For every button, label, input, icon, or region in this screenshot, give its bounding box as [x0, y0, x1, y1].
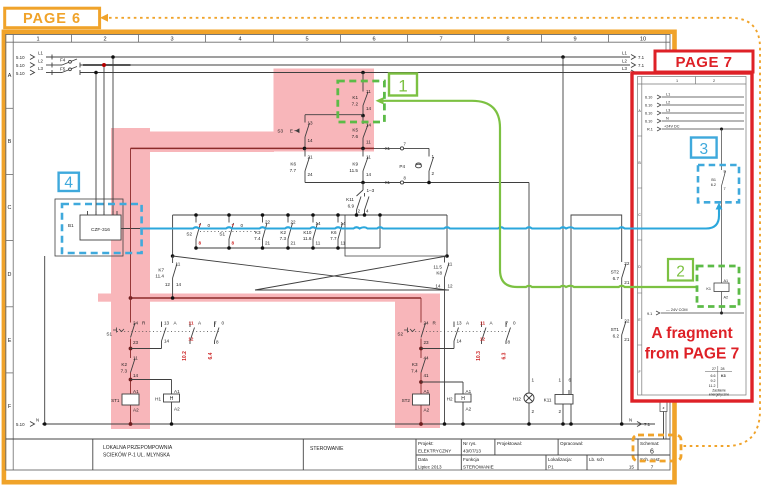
svg-text:22: 22	[624, 319, 630, 324]
mini cross reference table K3	[709, 367, 726, 388]
B1 enclosure outline	[55, 199, 123, 256]
frame inner top line (column number strip)	[6, 41, 670, 43]
S2 aux contact 13 14	[454, 322, 459, 349]
svg-text:Projekt:: Projekt:	[418, 441, 434, 446]
title block: Sch nast 7	[640, 457, 660, 470]
label 5.10 N left	[16, 418, 39, 428]
svg-text:1: 1	[559, 378, 562, 383]
svg-text:K2: K2	[280, 230, 286, 235]
svg-text:ST2: ST2	[402, 398, 411, 403]
contact K10	[313, 215, 318, 248]
cyan number label 4	[59, 173, 79, 192]
mini page frame	[638, 77, 747, 396]
svg-text:8: 8	[508, 340, 511, 345]
svg-text:10.2: 10.2	[182, 351, 188, 361]
label S2 pins 24 R 23	[397, 321, 436, 346]
source arrow L2	[30, 63, 35, 68]
svg-text:H1: H1	[155, 397, 161, 402]
svg-text:6.10: 6.10	[645, 104, 652, 108]
mini labels 6.10 L1 L2 L3 N R.1 +24V	[645, 93, 680, 132]
label S2 aux 13 A 14	[457, 321, 471, 344]
svg-text:6: 6	[569, 378, 572, 383]
svg-text:22: 22	[624, 261, 630, 266]
highlight band: left vertical over ST1 rung	[111, 128, 150, 429]
label z terminal	[663, 405, 665, 410]
green highlight wire K1 link	[383, 101, 697, 287]
svg-text:L1: L1	[38, 51, 43, 56]
svg-text:6.2: 6.2	[613, 334, 620, 339]
svg-text:A1: A1	[133, 389, 139, 394]
green dashed box 2 around coil K1	[697, 266, 739, 307]
svg-text:K6: K6	[290, 162, 296, 167]
junction S2 bottom x421 y348.5	[419, 347, 423, 351]
svg-text:7.3: 7.3	[280, 236, 287, 241]
svg-text:B: B	[8, 139, 12, 145]
svg-text:6.2: 6.2	[711, 183, 716, 187]
svg-text:A1: A1	[174, 389, 180, 394]
label S1 aux 13 A 14	[164, 321, 178, 344]
mini label B1 6.2 pins 8 7	[711, 170, 726, 192]
orange dashed box around Schemat 6	[633, 435, 681, 461]
svg-text:12: 12	[448, 284, 454, 289]
wire H12 feed x529	[528, 183, 530, 394]
title block: plant name	[103, 445, 173, 459]
svg-text:21: 21	[308, 155, 314, 160]
S1 aux contact 13 14	[162, 322, 167, 349]
svg-text:14: 14	[366, 172, 372, 177]
svg-text:15: 15	[629, 465, 635, 470]
svg-text:S1: S1	[106, 332, 112, 337]
label K3 7.4 pins 44 41	[411, 356, 429, 379]
junction K5 bottom y148	[361, 147, 365, 151]
node X left y256	[171, 254, 175, 258]
svg-text:7: 7	[651, 465, 654, 470]
svg-text:4: 4	[366, 209, 369, 214]
junction dots N rail	[43, 422, 624, 426]
label S1 aux red 11 12 A	[188, 321, 202, 342]
junction L2 x104 (red)	[102, 63, 106, 67]
fuse F4	[62, 59, 80, 68]
svg-text:D: D	[638, 265, 641, 269]
cyan dashed box 4 around device B1	[62, 204, 142, 253]
svg-text:ST1: ST1	[611, 327, 620, 332]
mini wire 24V COM	[656, 311, 744, 315]
exit arrow L3 to 7.1	[631, 70, 636, 75]
label CZF-316	[91, 227, 110, 233]
limit switch ST2 6.7 contact	[622, 264, 626, 319]
svg-text:1: 1	[398, 77, 407, 96]
PAGE 7 header box	[655, 51, 753, 72]
wire crossover bottom rail y290	[255, 289, 449, 291]
svg-text:11.5: 11.5	[433, 265, 442, 270]
svg-text:23: 23	[133, 340, 139, 345]
mini wire L2	[657, 103, 744, 107]
svg-text:10: 10	[640, 36, 646, 42]
page link terminal z	[660, 401, 667, 439]
green number label 2	[668, 259, 693, 281]
svg-text:2: 2	[432, 171, 435, 176]
label ST1 6.2 pins 22 21	[611, 319, 630, 343]
S2 mechanical link dotted	[408, 331, 510, 333]
svg-text:9.2: 9.2	[711, 379, 716, 383]
svg-text:H12: H12	[513, 397, 522, 402]
annotation text A fragment from PAGE 7	[645, 325, 739, 363]
mini wire L3	[657, 111, 744, 115]
junction P4 bottom	[427, 181, 431, 185]
svg-text:6.3: 6.3	[502, 352, 508, 359]
svg-text:2: 2	[103, 36, 106, 42]
title block: function STEROWANIE	[310, 446, 344, 452]
svg-text:11.6: 11.6	[303, 236, 312, 241]
wire rung top rail y215	[173, 214, 447, 216]
exit arrow L1 to 7.1	[631, 55, 636, 60]
svg-text:11: 11	[366, 155, 371, 160]
wire rung bottom rail y248	[196, 215, 380, 248]
svg-text:L3: L3	[38, 66, 43, 71]
fuse F5	[62, 67, 80, 76]
wire B1 to N rail	[44, 256, 46, 424]
cyan highlight bus wire B1 output	[140, 208, 719, 229]
wire L2 bold segment	[83, 64, 131, 66]
mini label zasilanie energetyczne	[709, 389, 729, 397]
switch S1 main contact 24 23	[113, 323, 135, 338]
label L2 7.1	[622, 59, 645, 68]
label fuse F4	[60, 58, 66, 63]
svg-text:LOKALNA PRZEPOMPOWNIA: LOKALNA PRZEPOMPOWNIA	[103, 445, 173, 451]
svg-text:21: 21	[265, 241, 271, 246]
device box around contacts 6-7	[345, 215, 447, 256]
svg-text:N: N	[666, 117, 669, 121]
svg-text:R.1: R.1	[647, 128, 653, 132]
svg-text:A1: A1	[466, 389, 472, 394]
label coil ST1 A1 A2	[111, 389, 139, 413]
svg-text:7: 7	[505, 321, 508, 326]
svg-text:1: 1	[676, 79, 678, 83]
label rotated 10.2	[182, 351, 188, 361]
svg-text:A2: A2	[466, 407, 472, 412]
mechanical link dotted S2-S1	[200, 231, 257, 233]
svg-text:H: H	[170, 396, 174, 402]
junction node x363 y115.6	[361, 114, 365, 118]
frame inner left line (row letter strip)	[12, 35, 14, 471]
svg-text:Nr rys.: Nr rys.	[463, 441, 477, 446]
wire N rail	[42, 423, 655, 425]
green number label 1	[389, 74, 417, 96]
source arrow L3	[30, 70, 35, 75]
svg-text:4: 4	[64, 175, 73, 192]
svg-text:L1: L1	[666, 93, 670, 97]
contact K7	[173, 256, 177, 298]
wire branch to S1 aux contact	[131, 348, 162, 350]
svg-text:K1: K1	[352, 95, 358, 100]
junction dots top rail	[194, 213, 382, 217]
column boundary ticks	[72, 35, 609, 43]
svg-text:+24V DC: +24V DC	[664, 125, 680, 129]
svg-text:7.1: 7.1	[638, 63, 645, 68]
mini junction +24V x721.5	[720, 128, 723, 131]
svg-text:5.10: 5.10	[16, 422, 25, 427]
svg-text:K5: K5	[352, 128, 358, 133]
mini label K1 A1 A2	[706, 279, 728, 300]
wire L3 phase line (right of fuse)	[80, 72, 630, 74]
svg-text:2: 2	[713, 79, 715, 83]
wire drop L2 to B1	[103, 65, 105, 215]
contact K1 (on L3 drop x363)	[363, 73, 368, 116]
svg-text:7: 7	[214, 321, 217, 326]
highlighted wire y148 (maroon)	[131, 147, 375, 149]
svg-text:6.6: 6.6	[711, 374, 716, 378]
svg-text:E: E	[290, 129, 293, 134]
svg-text:S1: S1	[219, 232, 225, 237]
svg-text:27: 27	[712, 367, 716, 371]
svg-text:6.4: 6.4	[208, 352, 214, 359]
svg-text:N: N	[629, 418, 632, 423]
svg-text:14: 14	[308, 138, 314, 143]
svg-text:6.10: 6.10	[645, 96, 652, 100]
svg-text:14: 14	[176, 282, 182, 287]
junction L3 x96	[94, 71, 98, 75]
label P4 pins 1 2	[399, 154, 434, 176]
label K2a 7.3 pins 22 21	[280, 220, 296, 246]
title block: Opracowal	[560, 441, 583, 446]
svg-text:K11: K11	[544, 398, 552, 403]
wire rail right drop x447	[446, 215, 448, 256]
label L1 7.1	[622, 51, 645, 60]
label contact K6 7.7 pins 21 24	[290, 155, 313, 178]
svg-text:1–3: 1–3	[367, 188, 375, 193]
svg-text:11.2: 11.2	[709, 384, 716, 388]
svg-text:0: 0	[222, 321, 225, 326]
svg-text:7: 7	[724, 187, 726, 191]
svg-text:L3: L3	[622, 66, 627, 71]
svg-text:1: 1	[432, 154, 435, 159]
svg-text:A1: A1	[724, 279, 729, 283]
label coil ST2 A1 A2	[402, 389, 430, 413]
svg-text:A2: A2	[174, 407, 180, 412]
svg-text:-X1: -X1	[383, 146, 390, 151]
svg-text:43/07/13: 43/07/13	[463, 449, 481, 454]
svg-text:8: 8	[506, 36, 509, 42]
svg-text:2: 2	[358, 209, 361, 214]
svg-text:Opracowal:: Opracowal:	[560, 441, 583, 446]
selector switch S1a	[229, 215, 234, 248]
label lamp H2	[447, 389, 472, 412]
S1 aux contact 7 8	[215, 322, 220, 345]
svg-text:L2: L2	[666, 101, 670, 105]
label S1 pins 24 R 23	[106, 321, 146, 346]
svg-text:11.5: 11.5	[349, 168, 358, 173]
title block: Lb sch 15	[589, 457, 634, 470]
wire branch to H2	[421, 382, 463, 394]
svg-text:7.4: 7.4	[411, 369, 418, 374]
svg-text:CZF-316: CZF-316	[91, 227, 110, 233]
svg-text:6.10: 6.10	[645, 120, 652, 124]
wire S3 branch horizontal y114.7	[305, 114, 363, 116]
label S2 aux red 11 12 A	[480, 321, 494, 342]
svg-text:2: 2	[676, 264, 685, 281]
svg-text:7: 7	[439, 36, 442, 42]
S1 mechanical link dotted	[117, 331, 219, 333]
label K7 11.4 pins 11 12 14	[155, 262, 181, 288]
terminal X1 pin 7	[400, 147, 403, 150]
svg-text:7.3: 7.3	[121, 369, 128, 374]
svg-text:K3: K3	[412, 362, 418, 367]
svg-text:6.7: 6.7	[613, 276, 620, 281]
svg-text:Data: Data	[418, 457, 428, 462]
svg-text:2: 2	[559, 409, 562, 414]
title block: Schemat 6	[640, 441, 659, 456]
junction L3 x363	[361, 71, 365, 75]
svg-text:-X1: -X1	[383, 180, 390, 185]
lamp H2	[455, 394, 471, 424]
column numbers 1-10	[36, 36, 646, 42]
mini contact B1 6.2	[722, 171, 726, 283]
svg-text:Lb. sch: Lb. sch	[589, 457, 604, 462]
svg-text:14: 14	[164, 339, 170, 344]
contact K9	[363, 148, 368, 182]
svg-text:3: 3	[170, 36, 173, 42]
svg-text:6: 6	[372, 36, 375, 42]
junction K9 bottom y182.5	[361, 181, 365, 185]
cyan number label 3	[691, 138, 717, 159]
svg-text:N: N	[36, 418, 39, 423]
svg-text:7.6: 7.6	[352, 134, 359, 139]
svg-text:8: 8	[216, 340, 219, 345]
wire K8 to N rail	[444, 290, 446, 424]
junction N rail ST2 rung (dark red)	[419, 422, 423, 426]
label fuse F5	[60, 67, 66, 72]
wire B1 output to cyan node	[121, 228, 141, 230]
svg-text:5.10: 5.10	[16, 63, 25, 68]
mini wire N	[657, 119, 744, 123]
svg-text:A1: A1	[424, 389, 430, 394]
svg-text:PAGE 6: PAGE 6	[23, 11, 81, 27]
contact K5	[363, 116, 368, 149]
wire drop L3 to B1	[95, 73, 97, 216]
svg-text:11: 11	[316, 241, 321, 246]
junction dots bottom rail	[194, 246, 340, 250]
svg-text:Schemat:: Schemat:	[640, 441, 659, 446]
title block: Nr rys 43/07/13	[463, 441, 481, 454]
svg-text:3: 3	[699, 141, 708, 158]
mini page row ticks and letters	[638, 136, 642, 345]
svg-text:K1: K1	[706, 287, 711, 291]
svg-text:44: 44	[424, 356, 430, 361]
label K3a 7.4 pins 22 21	[254, 220, 270, 246]
title block table	[6, 439, 670, 470]
wire ST2 rung vertical x421 (maroon)	[420, 298, 422, 424]
frame inner right line	[665, 35, 667, 440]
label contact K11 6.9 pins 1-3 2 4	[346, 188, 374, 214]
svg-text:12: 12	[188, 337, 194, 342]
coil ST1	[122, 394, 139, 405]
S1 aux contact 11 12	[190, 322, 195, 345]
label rotated 6.4	[208, 352, 214, 359]
svg-text:11: 11	[448, 262, 453, 267]
mini wire drop to B1 contact	[721, 129, 723, 170]
svg-text:8: 8	[199, 241, 202, 246]
label 5.10 L2	[16, 59, 43, 68]
svg-text:7.2: 7.2	[352, 102, 359, 107]
wire crossover diagonal 2	[255, 256, 447, 290]
svg-text:13: 13	[308, 121, 314, 126]
svg-text:K3: K3	[721, 374, 726, 378]
wire L1 phase line	[46, 55, 630, 60]
lamp H1	[164, 394, 180, 424]
svg-text:13: 13	[164, 321, 170, 326]
label rotated 6.3	[502, 352, 508, 359]
highlighted wire y298 (maroon)	[131, 297, 422, 299]
svg-text:A fragment: A fragment	[651, 325, 732, 342]
relay coil K11	[555, 390, 573, 424]
switch S2 main contact 24 23	[404, 323, 426, 338]
label 5.10 L3	[16, 66, 43, 76]
relay device B1 CZF-316	[80, 211, 121, 240]
svg-text:14: 14	[366, 106, 372, 111]
svg-text:8: 8	[232, 241, 235, 246]
svg-text:0: 0	[241, 223, 244, 228]
selector switch S2a	[196, 215, 201, 248]
cyan dashed box 3 around contact B1	[698, 165, 739, 202]
svg-text:14: 14	[457, 339, 463, 344]
wire L2 phase line (right of fuse)	[80, 64, 630, 66]
svg-text:K10: K10	[303, 230, 312, 235]
wire branch to S2 aux contact	[421, 348, 454, 350]
svg-text:11: 11	[366, 140, 371, 145]
junction y298 x172.6	[171, 296, 175, 300]
contact K8	[445, 256, 450, 290]
svg-text:L2: L2	[38, 59, 43, 64]
svg-text:21: 21	[624, 280, 630, 285]
contact K11 double pole	[357, 183, 370, 216]
wire drop L1 to B1	[112, 57, 114, 215]
contact K2 7.3	[131, 359, 136, 373]
mini page column numbers	[676, 79, 715, 83]
svg-text:ST2: ST2	[611, 270, 620, 275]
highlight band: top block over K1/K5/S3 branch	[274, 69, 375, 152]
svg-text:5.10: 5.10	[16, 55, 25, 60]
svg-text:H2: H2	[447, 397, 453, 402]
exit arrow L2 to 7.1	[631, 63, 636, 68]
svg-text:7.1: 7.1	[638, 55, 645, 60]
svg-text:K7: K7	[158, 268, 164, 273]
junction L1 x563	[561, 55, 565, 59]
svg-text:24: 24	[424, 321, 430, 326]
svg-text:Projektowal:: Projektowal:	[497, 441, 522, 446]
wire y148 continuation to X1	[374, 147, 429, 149]
label K8 11.5 pins 11 14 12	[433, 262, 453, 289]
title block: Projekt ELEKTRYCZNY	[418, 441, 451, 454]
svg-text:7.4: 7.4	[254, 236, 261, 241]
label K11 coil pins 1 6 2	[544, 378, 572, 415]
label S3 pins 13 14	[277, 121, 313, 144]
label K2 7.3 pins 11 14	[121, 356, 139, 379]
wire K11 coil feed x563	[562, 57, 564, 395]
svg-text:1: 1	[532, 378, 535, 383]
wire y182.5	[305, 182, 529, 184]
svg-text:A2: A2	[133, 408, 139, 413]
svg-text:6.9: 6.9	[348, 204, 355, 209]
green dashed box 1 around contact K1	[338, 81, 385, 122]
svg-text:K9: K9	[352, 162, 358, 167]
svg-text:14: 14	[316, 221, 322, 226]
label contact K9 11.5 pins 11 14	[349, 155, 371, 178]
wire branch to H1	[131, 380, 172, 395]
title block: Funkcja STEROWANIE	[463, 457, 494, 470]
node X right y256	[445, 254, 449, 258]
cyan arrow head	[716, 203, 723, 210]
svg-text:8: 8	[724, 170, 726, 174]
